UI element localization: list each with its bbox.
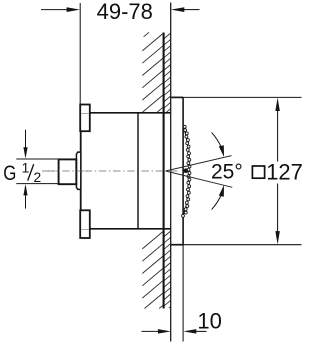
wall coarse hatching upper [142,32,163,112]
tile fine hatching lower [164,231,171,308]
arc arrow top [212,132,222,148]
body main box [81,105,171,239]
centerline over pipe [48,170,90,172]
svg-text:2: 2 [34,170,42,185]
svg-text:1: 1 [22,160,30,175]
dimension 49-78 left arrow [41,9,68,11]
arc arrow bottom [212,194,222,210]
cover plate [171,97,183,244]
wall coarse hatching lower [142,231,163,309]
svg-text:127: 127 [266,159,303,184]
svg-text:25°: 25° [211,161,243,184]
G1/2 threaded pipe [59,159,77,184]
spray angle line upper [166,156,232,171]
inlet flange [76,152,80,189]
mounting tab bottom [80,210,90,238]
faint body edge through top tab [81,113,89,115]
nozzle beads [182,125,191,217]
centerline [42,170,180,172]
dimension 49-78 right arrow [184,9,200,11]
mounting tab top [80,105,90,132]
square symbol [252,166,264,178]
G1/2 dimension lines [16,130,60,209]
faint body edge through bottom tab [81,229,89,231]
finished wall face line [170,3,172,342]
dimension 10 right arrow [196,330,207,332]
center nozzle dot [184,168,189,173]
dimension 10 extension line [182,245,184,342]
dimension 49-78 extension line [79,3,81,105]
svg-text:10: 10 [197,308,221,333]
wall rough surface line [163,33,165,309]
nozzle face arc [183,127,189,215]
spray angle line lower [166,171,233,187]
dimension 10 left arrow [142,330,159,332]
svg-text:G: G [3,161,16,185]
svg-text:49-78: 49-78 [97,0,153,24]
tile fine hatching upper [164,33,171,112]
square 127 dimension extension lines [183,97,301,244]
